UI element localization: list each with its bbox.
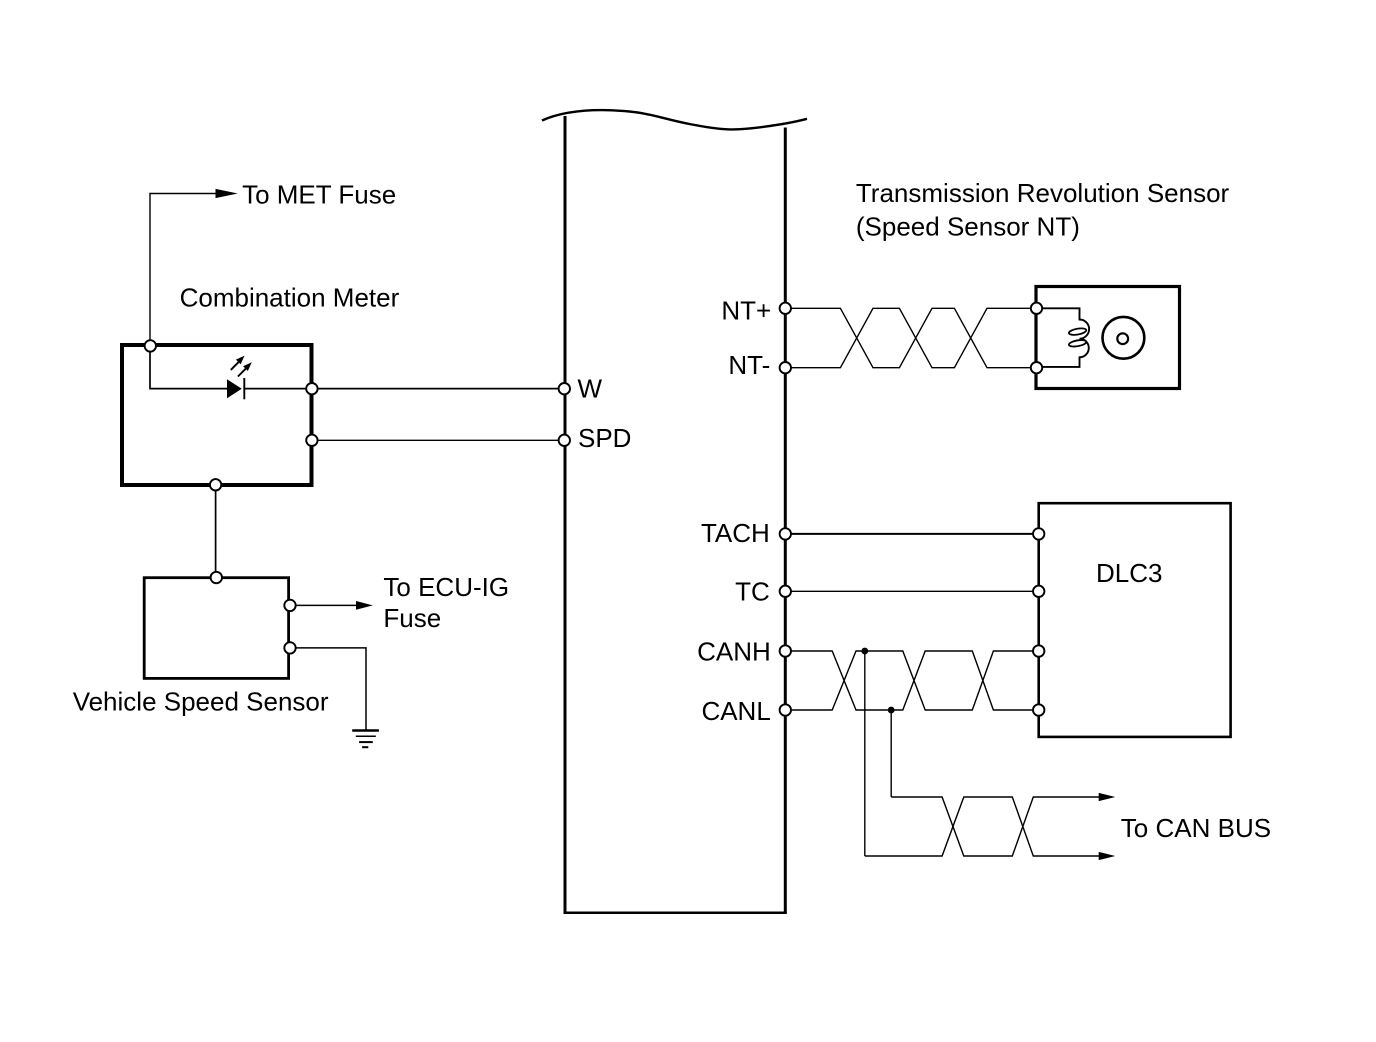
svg-text:To ECU-IG: To ECU-IG bbox=[383, 572, 509, 602]
svg-text:CANL: CANL bbox=[701, 696, 770, 726]
svg-text:Combination Meter: Combination Meter bbox=[180, 282, 400, 312]
svg-text:To CAN BUS: To CAN BUS bbox=[1121, 813, 1271, 843]
svg-text:Transmission Revolution Sensor: Transmission Revolution Sensor bbox=[856, 178, 1230, 208]
svg-text:DLC3: DLC3 bbox=[1096, 558, 1162, 588]
svg-text:(Speed Sensor NT): (Speed Sensor NT) bbox=[856, 211, 1080, 241]
svg-text:Vehicle Speed Sensor: Vehicle Speed Sensor bbox=[73, 687, 329, 717]
svg-text:To MET Fuse: To MET Fuse bbox=[242, 180, 396, 210]
svg-text:SPD: SPD bbox=[578, 423, 631, 453]
svg-text:NT+: NT+ bbox=[721, 295, 771, 325]
svg-text:W: W bbox=[578, 374, 603, 404]
svg-text:TACH: TACH bbox=[701, 518, 770, 548]
svg-text:CANH: CANH bbox=[697, 636, 771, 666]
svg-text:NT-: NT- bbox=[728, 350, 770, 380]
svg-text:Fuse: Fuse bbox=[383, 603, 441, 633]
svg-text:TC: TC bbox=[735, 576, 770, 606]
